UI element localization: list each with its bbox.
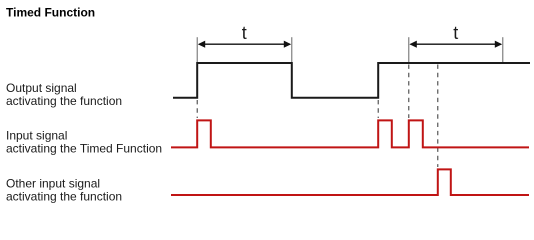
svg-text:Input signal: Input signal — [6, 128, 67, 142]
svg-text:activating the Timed Function: activating the Timed Function — [6, 141, 162, 155]
svg-text:t: t — [453, 23, 458, 43]
svg-text:Other input signal: Other input signal — [6, 176, 100, 190]
svg-text:Output signal: Output signal — [6, 81, 77, 95]
svg-text:activating the function: activating the function — [6, 94, 122, 108]
svg-text:Timed Function: Timed Function — [6, 6, 95, 20]
svg-text:t: t — [242, 23, 247, 43]
svg-text:activating the function: activating the function — [6, 189, 122, 203]
